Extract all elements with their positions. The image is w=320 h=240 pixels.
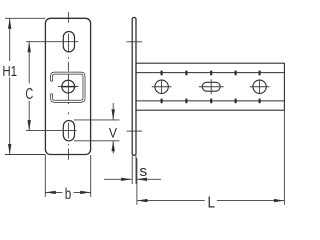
dimension s: right face extension line <box>135 155 137 184</box>
dimension L: right extension line <box>283 111 285 205</box>
dimension H1: bottom extension line <box>5 154 45 156</box>
side view: tick at top slot center <box>127 41 143 43</box>
extension line: bottom slot bottom edge (for V) <box>74 140 120 142</box>
svg-text:L: L <box>208 194 216 211</box>
dimension H1: dimension line <box>9 18 11 61</box>
svg-text:H1: H1 <box>2 63 17 80</box>
front view: round hole horizontal centerline <box>58 86 79 88</box>
front view: top slot center line / extension line for c <box>26 41 78 43</box>
dimension H1: top extension line <box>5 17 45 19</box>
front view: bracket plate outline <box>45 18 90 154</box>
dimension V: arrowheads <box>112 109 115 120</box>
dimension L: left extension line <box>136 158 138 205</box>
svg-text:s: s <box>139 163 147 179</box>
dimension s: dimension line tails (arrows outside) <box>104 178 132 180</box>
svg-text:C: C <box>25 85 33 103</box>
front view: vertical centerline (dash-dot) <box>67 12 69 160</box>
front view: bottom slot center line / extension line for c <box>26 130 77 132</box>
dimension L: arrowheads <box>137 199 148 202</box>
rail: upper inner edge line <box>136 72 284 74</box>
dimension s: left face extension line <box>131 155 133 184</box>
rail: channel body outline <box>136 63 284 110</box>
dimension L: dimension line <box>137 200 205 202</box>
svg-text:V: V <box>109 125 117 141</box>
extension line: bottom slot top edge (for V) <box>74 119 120 121</box>
dimension b: arrowheads <box>45 191 56 194</box>
side view: tick at bottom slot center <box>127 130 143 132</box>
front view: channel profile (C-shaped double line) <box>52 73 84 101</box>
rail: intermediate centerline tick 1 <box>185 71 187 104</box>
svg-text:b: b <box>65 184 72 202</box>
dimension H1: arrowheads <box>8 18 11 29</box>
dimension b: right extension line <box>90 155 92 197</box>
side view: bracket plate (thickness s) <box>132 18 136 156</box>
rail hole 3: round hole with centerlines <box>250 71 270 104</box>
dimension s: arrowheads <box>121 178 132 181</box>
dimension b: dimension line <box>45 191 62 193</box>
rail: intermediate centerline tick 2 <box>235 71 237 104</box>
dimension c: arrowheads <box>28 42 31 53</box>
dimension V: dimension line (arrows outside) <box>112 103 114 120</box>
front view: top slot (oblong hole) <box>63 32 74 52</box>
front view: bottom slot (oblong hole) <box>63 121 74 141</box>
rail hole 2: oblong slot with centerlines <box>199 71 224 104</box>
dimension c: dimension line <box>28 42 30 84</box>
front view: round hole in channel <box>62 80 75 93</box>
dimension b: left extension line <box>44 155 46 197</box>
rail hole 1: round hole with centerlines <box>152 71 172 104</box>
rail: lower inner edge line <box>136 100 284 102</box>
